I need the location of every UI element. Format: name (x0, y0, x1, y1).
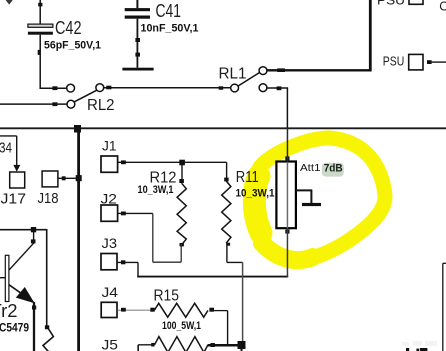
section border (0, 127, 446, 129)
wire (C42 top lead) (38, 0, 42, 24)
connector J17 (1, 172, 27, 208)
wire (below junction) (241, 345, 243, 351)
svg-text:R11: R11 (236, 169, 259, 186)
resistor R16 (151, 337, 215, 351)
wire (RL1 NO contact, thick, to top) (267, 0, 370, 72)
node (divider top junction) (74, 125, 81, 133)
wire (C42 bottom lead to RL2) (38, 35, 67, 90)
resistor (bottom left, clipped) (43, 322, 53, 351)
relay contact RL2 (67, 84, 115, 114)
svg-text:100_5W,1: 100_5W,1 (162, 320, 201, 332)
connector J4 (101, 284, 118, 317)
label fragments (bottom right) (402, 341, 437, 351)
wire (Att1 center line) (286, 128, 288, 277)
wire (R15 right, down) (214, 311, 228, 345)
resistor R12 (138, 169, 187, 246)
svg-text:C5479: C5479 (0, 323, 29, 335)
wire (R16 left to J5) (138, 345, 154, 351)
svg-text:J18: J18 (38, 190, 59, 207)
wire (right edge, down) (443, 263, 446, 351)
svg-text:10nF_50V,1: 10nF_50V,1 (141, 22, 199, 34)
wire (J4 to R15) (118, 308, 151, 312)
svg-text:34: 34 (0, 139, 12, 156)
node (bus junction at J18) (76, 175, 82, 181)
wire (C41 top lead) (136, 0, 138, 8)
connector J3 (101, 235, 117, 270)
resistor R11 (222, 169, 275, 246)
wire (RL1 NC contact down to Att1) (267, 86, 288, 128)
svg-text:J4: J4 (102, 284, 119, 300)
wire (PSU lead to edge) (432, 61, 446, 63)
svg-text:56pF_50V,1: 56pF_50V,1 (44, 39, 101, 51)
svg-text:J1: J1 (102, 137, 117, 153)
wire (RL2 to RL1) (104, 86, 231, 90)
svg-text:J5: J5 (102, 336, 119, 351)
transistor Tr2 (0, 230, 36, 335)
resistor R15 (150, 287, 214, 332)
connector PSU (383, 53, 432, 70)
node (top-left arrow fragment) (6, 0, 13, 5)
connector J2 (101, 190, 118, 221)
svg-text:PSU: PSU (377, 0, 405, 8)
wire (collector net horizontal + down to resistor) (0, 229, 47, 323)
svg-text:10_3W,1: 10_3W,1 (236, 187, 275, 199)
svg-text:R15: R15 (154, 287, 180, 304)
node (R12 top junction) (179, 160, 185, 166)
svg-text:C41: C41 (156, 1, 182, 21)
node A (net 34 entry) (0, 136, 20, 172)
connector PSU (partial, top) (377, 0, 423, 8)
svg-text:7dB: 7dB (324, 163, 343, 175)
attenuator Att1 (276, 156, 320, 233)
highlight annotation (yellow marker ring) (252, 138, 385, 260)
svg-text:C4: C4 (439, 0, 446, 13)
capacitor C41 (125, 1, 199, 34)
wire (J1 to R12/R11 top) (118, 160, 227, 179)
svg-text:10_3W,1: 10_3W,1 (138, 184, 174, 196)
wire (J3 to Att1 bottom) (118, 260, 289, 277)
bus wire (vertical divider) (77, 128, 80, 351)
svg-text:Tr2: Tr2 (0, 301, 18, 321)
wire (junction down to R12) (179, 162, 184, 183)
ground (under C41) (122, 68, 153, 71)
label 7dB (green highlight) (322, 163, 344, 177)
capacitor C42 (28, 18, 101, 51)
svg-text:C42: C42 (55, 18, 82, 38)
connector J18 (38, 171, 59, 207)
connector J1 (101, 137, 118, 172)
svg-text:PSU: PSU (383, 53, 405, 68)
wire (RL2 common, from left edge) (0, 102, 67, 106)
svg-text:Att1: Att1 (300, 162, 321, 174)
relay contact RL1 (219, 66, 267, 92)
wire (C41 bottom lead) (135, 19, 140, 68)
svg-text:RL1: RL1 (219, 66, 247, 83)
svg-text:RL2: RL2 (87, 97, 115, 114)
wire (J2 to R12 bottom) (118, 212, 181, 263)
wire (R11 bottom jog down) (227, 243, 243, 342)
node (collector junction) (31, 227, 36, 232)
wire (R16 right thick) (208, 344, 239, 347)
svg-text:J17: J17 (1, 191, 27, 208)
node (bottom junction) (238, 341, 246, 349)
svg-text:J3: J3 (102, 235, 118, 251)
wire (J18 to bus) (58, 176, 79, 180)
wire (emitter down) (33, 302, 35, 351)
ground (right of Att1) (296, 190, 321, 206)
svg-text:J2: J2 (101, 190, 118, 206)
